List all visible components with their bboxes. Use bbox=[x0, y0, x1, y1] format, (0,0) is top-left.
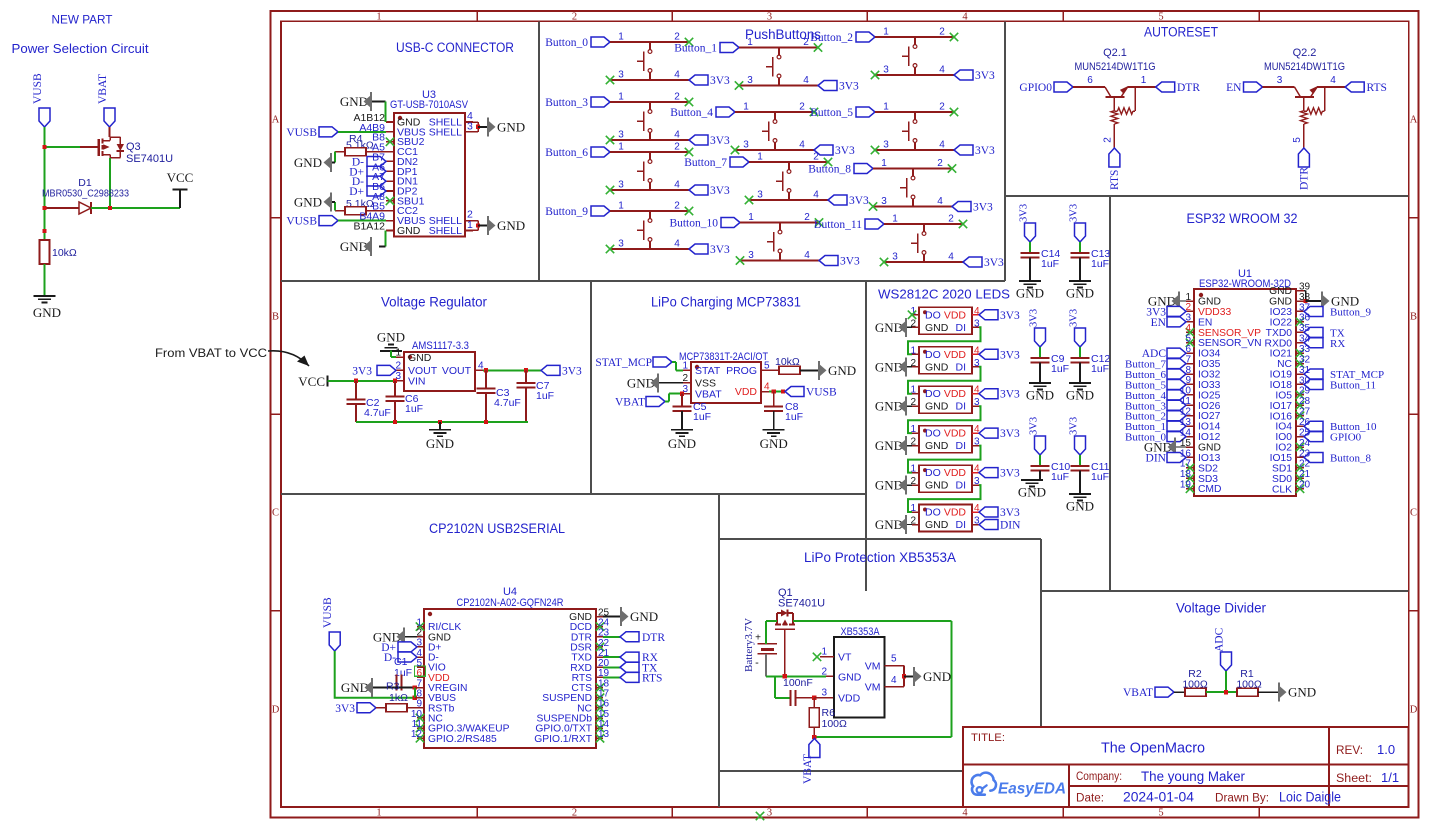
svg-text:GPIO.1/RXT: GPIO.1/RXT bbox=[534, 734, 592, 745]
svg-text:The young Maker: The young Maker bbox=[1141, 769, 1245, 784]
svg-text:1: 1 bbox=[910, 385, 916, 396]
wire RXD (U4) bbox=[603, 666, 620, 668]
svg-text:Drawn By:: Drawn By: bbox=[1215, 793, 1269, 805]
svg-text:VDD: VDD bbox=[944, 349, 967, 361]
svg-text:13: 13 bbox=[1180, 417, 1192, 428]
svg-text:1: 1 bbox=[910, 345, 916, 356]
no-connect X U4 GPIO.3 bbox=[416, 724, 424, 732]
wire 3V3 to R5 bbox=[376, 707, 386, 709]
wire 3V3 to C10 bbox=[1039, 455, 1041, 466]
ground flag (LED3) bbox=[875, 397, 912, 416]
svg-text:GPIO0: GPIO0 bbox=[1019, 82, 1052, 94]
net flag Button_8 (U1 IO15) bbox=[1304, 452, 1371, 464]
svg-text:3V3: 3V3 bbox=[839, 81, 859, 93]
wire Q3 drain down bbox=[109, 158, 111, 208]
svg-text:3V3: 3V3 bbox=[849, 195, 869, 207]
svg-text:15: 15 bbox=[1180, 438, 1192, 449]
title AUTORESET bbox=[1144, 25, 1218, 40]
no-connect X U1 IO17 bbox=[1296, 401, 1304, 409]
LED4 pin numbers bbox=[910, 424, 980, 448]
LED3 pin numbers bbox=[910, 385, 980, 409]
net flag DTR (Q2.2) bbox=[1298, 148, 1310, 190]
LED6 pin stubs bbox=[912, 512, 979, 525]
label 1uF (C1) bbox=[394, 667, 412, 679]
svg-text:NEW PART: NEW PART bbox=[52, 13, 114, 27]
no-connect X U4 GPIO.2 bbox=[416, 734, 424, 742]
svg-text:18: 18 bbox=[1180, 469, 1192, 480]
no-connect X U1 IO21 bbox=[1296, 349, 1304, 357]
title CP2102N USB2SERIAL bbox=[429, 521, 565, 536]
no-connect X U4 DSR bbox=[596, 643, 604, 651]
net flag ADC (U1 IO34) bbox=[1142, 348, 1186, 360]
net flag 3V3 (C12) bbox=[1069, 309, 1086, 347]
svg-text:3V3: 3V3 bbox=[710, 185, 730, 197]
capacitor C12 1uF bbox=[1071, 353, 1111, 383]
net flag Button_1 (U1) bbox=[1125, 421, 1186, 433]
label MUN5214DW1T1G (Q2.1) bbox=[1075, 61, 1156, 73]
svg-text:37: 37 bbox=[1299, 302, 1311, 313]
svg-text:3: 3 bbox=[757, 190, 763, 201]
svg-text:IO4: IO4 bbox=[1275, 422, 1292, 433]
svg-text:B: B bbox=[272, 312, 279, 323]
capacitor C6 1uF bbox=[386, 381, 424, 422]
push switch Button_10 bbox=[767, 223, 782, 261]
svg-text:Button_6: Button_6 bbox=[545, 147, 588, 159]
part label AMS1117-3.3 bbox=[412, 340, 469, 352]
push switch Button_9 bbox=[637, 211, 652, 249]
net flag VUSB (MCP VDD) bbox=[785, 387, 837, 399]
wire VBAT to Q3 source bbox=[109, 127, 111, 137]
svg-text:1: 1 bbox=[618, 142, 624, 153]
svg-text:VDD33: VDD33 bbox=[1198, 307, 1231, 318]
net flag GPIO0 (base Q2.1) bbox=[1019, 82, 1073, 94]
wire base (Q2.2) bbox=[1263, 75, 1295, 87]
svg-text:4: 4 bbox=[948, 252, 954, 263]
net flag 3V3 (Button_3) bbox=[689, 135, 730, 147]
LED4 pin names bbox=[925, 428, 966, 453]
wire XB VT stub bbox=[820, 656, 834, 658]
svg-text:SD3: SD3 bbox=[1198, 474, 1218, 485]
net flag 3V3 (LED5 VDD) bbox=[979, 468, 1020, 480]
net flag 3V3 (LED1 VDD) bbox=[979, 310, 1020, 322]
net flag Button_9 bbox=[545, 206, 610, 218]
svg-text:D+: D+ bbox=[349, 186, 364, 198]
svg-text:A: A bbox=[272, 115, 280, 126]
sheet border frame bbox=[271, 11, 1419, 818]
svg-text:VDD: VDD bbox=[944, 388, 967, 400]
net flag Button_6 bbox=[545, 147, 610, 159]
svg-text:VDD: VDD bbox=[838, 693, 861, 705]
svg-text:GND: GND bbox=[925, 361, 949, 373]
label Battery3.7V bbox=[743, 618, 755, 672]
LED2 pin numbers bbox=[910, 345, 980, 369]
wire Button_5 pin3-pin4 bbox=[875, 140, 954, 151]
capacitor C8 1uF bbox=[764, 392, 803, 430]
wire 3V3 to C14 bbox=[1029, 242, 1031, 253]
svg-text:1: 1 bbox=[395, 348, 401, 359]
capacitor C10 1uF bbox=[1031, 461, 1071, 483]
net flag 3V3 (Button_1) bbox=[818, 81, 859, 93]
svg-text:3: 3 bbox=[881, 196, 887, 207]
net flag DIN (LED6 DI) bbox=[979, 520, 1021, 532]
svg-text:IO35: IO35 bbox=[1198, 359, 1221, 370]
ground flag (LED5) bbox=[875, 476, 912, 495]
push switch Button_6 bbox=[637, 152, 652, 190]
resistor R1 100 bbox=[1236, 668, 1262, 696]
svg-text:1uF: 1uF bbox=[1051, 471, 1069, 483]
resistor R4 5.1k (CC1) bbox=[345, 148, 366, 156]
net label D- (U4) bbox=[384, 652, 417, 664]
wire Button_7 pin1-pin2 bbox=[749, 152, 828, 163]
svg-text:12: 12 bbox=[411, 729, 423, 740]
net flag RTS (Q2.2) bbox=[1345, 82, 1387, 94]
net flag Button_3 bbox=[545, 97, 610, 109]
capacitor C7 1uF bbox=[517, 370, 555, 422]
svg-text:4: 4 bbox=[939, 65, 945, 76]
net flag Button_1 bbox=[674, 43, 739, 55]
svg-text:23: 23 bbox=[1299, 448, 1311, 459]
ground flag (U3 top right) bbox=[488, 117, 525, 136]
svg-text:GND: GND bbox=[760, 436, 788, 451]
IC U3 GT-USB-7010ASV body bbox=[394, 113, 465, 237]
wire STAT_MCP to STAT bbox=[672, 362, 683, 370]
svg-text:GND: GND bbox=[923, 669, 951, 684]
svg-text:GND: GND bbox=[668, 436, 696, 451]
svg-text:29: 29 bbox=[1299, 386, 1311, 397]
svg-text:3V3: 3V3 bbox=[1069, 309, 1080, 327]
svg-text:Button_2: Button_2 bbox=[810, 32, 853, 44]
svg-text:4: 4 bbox=[813, 190, 819, 201]
no-connect X U1 SENSOR_VN bbox=[1186, 339, 1194, 347]
net flag Button_11 (U1 IO18) bbox=[1304, 379, 1376, 391]
push switch Button_0 bbox=[637, 42, 652, 80]
svg-text:3V3: 3V3 bbox=[1000, 310, 1020, 322]
svg-text:GND: GND bbox=[1066, 499, 1094, 514]
wire node to diode D1 bbox=[45, 207, 80, 209]
svg-text:RX: RX bbox=[1330, 338, 1345, 350]
ground flag (U4 pin2) bbox=[373, 627, 417, 646]
ground flag (LED4) bbox=[875, 436, 912, 455]
net flag Button_5 (U1) bbox=[1125, 379, 1186, 391]
svg-text:Button_8: Button_8 bbox=[1330, 452, 1371, 464]
svg-text:NC: NC bbox=[1277, 359, 1292, 370]
svg-text:VUSB: VUSB bbox=[286, 127, 317, 139]
svg-text:VDD: VDD bbox=[944, 428, 967, 440]
svg-text:RXD0: RXD0 bbox=[1265, 338, 1293, 349]
wire LED5 DI to LED6 DO chain bbox=[908, 485, 981, 512]
svg-text:2: 2 bbox=[1185, 302, 1191, 313]
svg-text:5: 5 bbox=[1185, 334, 1191, 345]
wire LED3 DI to LED4 DO chain bbox=[908, 406, 981, 433]
svg-text:1: 1 bbox=[743, 102, 749, 113]
svg-text:MUN5214DW1T1G: MUN5214DW1T1G bbox=[1264, 61, 1345, 73]
svg-text:GND: GND bbox=[294, 194, 322, 209]
svg-text:DO: DO bbox=[925, 309, 941, 321]
svg-text:VBAT: VBAT bbox=[1123, 687, 1153, 699]
svg-text:1uF: 1uF bbox=[1091, 471, 1109, 483]
push switch Button_4 bbox=[762, 112, 777, 150]
title block Drawn By: bbox=[1215, 790, 1341, 805]
net flag Button_9 (U1 IO23) bbox=[1304, 306, 1371, 318]
svg-text:VBAT: VBAT bbox=[615, 397, 645, 409]
wire VDD to VUSB bbox=[769, 389, 785, 393]
svg-text:Button_3: Button_3 bbox=[545, 97, 588, 109]
svg-text:3: 3 bbox=[892, 252, 898, 263]
svg-text:IO32: IO32 bbox=[1198, 370, 1221, 381]
no-connect X (Button_3 pin3) bbox=[606, 136, 614, 144]
wire Button_0 pin1-pin2 bbox=[610, 32, 689, 43]
svg-text:GND: GND bbox=[1198, 443, 1221, 454]
no-connect X U4 RI/CLK bbox=[416, 622, 424, 630]
wire battery plus bbox=[765, 621, 767, 644]
svg-text:IO14: IO14 bbox=[1198, 422, 1221, 433]
svg-text:GND: GND bbox=[630, 609, 658, 624]
no-connect X (Button_9 pin3) bbox=[606, 245, 614, 253]
no-connect X (LED1 DO) bbox=[908, 311, 916, 319]
svg-text:1: 1 bbox=[682, 361, 688, 372]
svg-text:2: 2 bbox=[939, 102, 945, 113]
ground flag (LED1) bbox=[875, 318, 912, 337]
svg-text:DO: DO bbox=[925, 428, 941, 440]
svg-text:VBAT: VBAT bbox=[802, 754, 814, 784]
wire Button_11 pin3-pin4 bbox=[884, 252, 963, 263]
wire Button_2 pin3-pin4 bbox=[875, 65, 954, 76]
svg-text:EasyEDA: EasyEDA bbox=[998, 781, 1066, 798]
svg-text:GT-USB-7010ASV: GT-USB-7010ASV bbox=[390, 99, 469, 111]
net flag VUSB (U3 VBUS A4B9) bbox=[286, 127, 338, 139]
no-connect X (Button_0 pin3) bbox=[606, 76, 614, 84]
svg-text:1: 1 bbox=[1185, 292, 1191, 303]
svg-text:3: 3 bbox=[618, 70, 624, 81]
LED2 pin names bbox=[925, 349, 966, 374]
svg-text:2: 2 bbox=[813, 152, 819, 163]
svg-text:Date:: Date: bbox=[1076, 793, 1104, 805]
svg-text:IO15: IO15 bbox=[1270, 453, 1293, 464]
LED LED6 WS2812C body bbox=[919, 505, 972, 532]
ground flag (LED2) bbox=[875, 357, 912, 376]
svg-text:4: 4 bbox=[804, 250, 810, 261]
svg-text:GND: GND bbox=[925, 480, 949, 492]
svg-text:1uF: 1uF bbox=[785, 411, 803, 423]
net flag 3V3 (C10) bbox=[1029, 417, 1046, 455]
title LiPo Charging MCP73831 bbox=[651, 295, 801, 310]
svg-text:1: 1 bbox=[892, 214, 898, 225]
no-connect X (Button_2 pin2) bbox=[950, 33, 958, 41]
LED1 pin names bbox=[925, 309, 966, 334]
wire base (Q2.1) bbox=[1073, 75, 1105, 87]
svg-text:Button_5: Button_5 bbox=[810, 107, 853, 119]
svg-text:3: 3 bbox=[467, 121, 473, 133]
no-connect X (Button_6 pin2) bbox=[685, 148, 693, 156]
svg-text:GND: GND bbox=[1026, 388, 1054, 403]
svg-text:VM: VM bbox=[865, 661, 881, 673]
IC MCP73831 body bbox=[691, 362, 761, 403]
svg-text:17: 17 bbox=[1180, 459, 1192, 470]
svg-text:3V3: 3V3 bbox=[975, 145, 995, 157]
net flag DTR (Q2.1) bbox=[1156, 82, 1201, 94]
transistor Q2.2 MUN5214DW1T1G bbox=[1295, 86, 1325, 124]
no-connect X (Button_0 pin2) bbox=[685, 38, 693, 46]
svg-text:SE7401U: SE7401U bbox=[778, 598, 825, 610]
label NEW PART bbox=[52, 13, 114, 27]
svg-text:3: 3 bbox=[883, 65, 889, 76]
no-connect X (Button_2 pin3) bbox=[871, 71, 879, 79]
wire U3 pin A1B12 to GND bbox=[372, 102, 386, 123]
title The OpenMacro bbox=[1101, 740, 1205, 757]
LED1 pin numbers bbox=[910, 306, 980, 330]
LED LED5 WS2812C body bbox=[919, 465, 972, 492]
wire VUSB to VBUS bbox=[335, 651, 415, 698]
net flag VBAT (protection, vertical) bbox=[802, 739, 820, 785]
svg-text:IO5: IO5 bbox=[1275, 390, 1292, 401]
svg-text:IO16: IO16 bbox=[1270, 411, 1293, 422]
resistor R5 (RSTb pullup) bbox=[386, 704, 407, 712]
part label CP2102N-A02-GQFN24R bbox=[457, 597, 564, 609]
svg-text:1: 1 bbox=[910, 424, 916, 435]
label C1 bbox=[394, 656, 408, 668]
wire R to GND (PROG) bbox=[800, 369, 818, 371]
svg-text:3V3: 3V3 bbox=[1000, 468, 1020, 480]
svg-text:22: 22 bbox=[1299, 459, 1311, 470]
svg-text:Button_0: Button_0 bbox=[545, 37, 588, 49]
net flag 3V3 (Button_8) bbox=[952, 202, 993, 214]
svg-text:-: - bbox=[755, 657, 759, 669]
wire 3V3 to C9 bbox=[1039, 347, 1041, 358]
net flag 3V3 (Button_7) bbox=[828, 195, 869, 207]
svg-text:1: 1 bbox=[883, 102, 889, 113]
svg-text:4: 4 bbox=[674, 70, 680, 81]
net flag STAT_MCP (U1 IO19) bbox=[1304, 369, 1384, 381]
svg-text:SD0: SD0 bbox=[1272, 474, 1292, 485]
svg-text:1uF: 1uF bbox=[693, 411, 711, 423]
svg-text:3: 3 bbox=[618, 180, 624, 191]
resistor 10k pulldown bbox=[40, 240, 77, 264]
svg-text:C: C bbox=[1410, 508, 1417, 519]
svg-text:B: B bbox=[1410, 312, 1417, 323]
svg-text:30: 30 bbox=[1299, 375, 1311, 386]
LED LED3 WS2812C body bbox=[919, 386, 972, 413]
net flag Button_7 bbox=[684, 157, 749, 169]
svg-text:GND: GND bbox=[828, 363, 856, 378]
svg-text:IO23: IO23 bbox=[1270, 307, 1293, 318]
svg-text:1uF: 1uF bbox=[1041, 258, 1059, 270]
svg-text:3: 3 bbox=[821, 688, 827, 699]
svg-text:GND: GND bbox=[925, 440, 949, 452]
op label U3 bbox=[422, 89, 436, 101]
svg-text:DI: DI bbox=[956, 322, 967, 334]
no-connect X (Button_9 pin2) bbox=[685, 207, 693, 215]
label 100nF bbox=[783, 677, 813, 689]
svg-text:GND: GND bbox=[1016, 286, 1044, 301]
wire emitter to RTS bbox=[1102, 124, 1114, 148]
svg-text:1: 1 bbox=[881, 158, 887, 169]
wire resistor to GND bbox=[44, 264, 46, 296]
svg-text:Battery3.7V: Battery3.7V bbox=[743, 618, 755, 672]
svg-text:100Ω: 100Ω bbox=[1236, 679, 1262, 691]
LED2 pin stubs bbox=[912, 354, 979, 367]
net label D+ (U4) bbox=[381, 642, 417, 654]
svg-text:SHELL: SHELL bbox=[429, 225, 462, 237]
svg-text:2: 2 bbox=[937, 158, 943, 169]
no-connect X U1 NC bbox=[1296, 359, 1304, 367]
svg-text:1: 1 bbox=[747, 37, 753, 48]
svg-text:IO19: IO19 bbox=[1270, 370, 1293, 381]
svg-text:2: 2 bbox=[799, 102, 805, 113]
no-connect X (Button_5 pin2) bbox=[950, 108, 958, 116]
svg-text:IO25: IO25 bbox=[1198, 390, 1221, 401]
svg-text:GND: GND bbox=[294, 155, 322, 170]
net flag DTR (U4) bbox=[620, 632, 665, 644]
wire Button_5 pin1-pin2 bbox=[875, 102, 954, 113]
svg-text:RTS: RTS bbox=[642, 672, 662, 684]
net flag Button_0 bbox=[545, 37, 610, 49]
label R3 bbox=[386, 681, 400, 693]
svg-text:3V3: 3V3 bbox=[1029, 417, 1040, 435]
svg-text:36: 36 bbox=[1299, 313, 1311, 324]
part label ESP32-WROOM-32D bbox=[1199, 278, 1291, 290]
title block TITLE: bbox=[971, 732, 1005, 744]
ground flag (MCP VSS) bbox=[627, 373, 658, 392]
label Q3 bbox=[126, 141, 141, 153]
svg-text:EN: EN bbox=[1151, 317, 1167, 329]
svg-text:12: 12 bbox=[1180, 407, 1192, 418]
wire Button_0 pin3-pin4 bbox=[610, 70, 689, 81]
LED1 pin stubs bbox=[912, 315, 979, 328]
svg-text:3V3: 3V3 bbox=[1000, 389, 1020, 401]
svg-text:IO0: IO0 bbox=[1275, 432, 1292, 443]
op label U1 bbox=[1238, 268, 1252, 280]
net flag Button_10 (U1 IO4) bbox=[1304, 421, 1377, 433]
svg-text:DI: DI bbox=[956, 480, 967, 492]
svg-text:VBAT: VBAT bbox=[695, 388, 722, 400]
wire Q1 gate to ground rail bbox=[784, 630, 786, 677]
no-connect X on SBU2 bbox=[386, 138, 394, 146]
svg-text:D: D bbox=[272, 705, 280, 716]
svg-text:DI: DI bbox=[956, 440, 967, 452]
net flag Button_2 (U1) bbox=[1125, 411, 1186, 423]
label Power Selection Circuit bbox=[12, 41, 149, 56]
svg-text:DTR: DTR bbox=[642, 632, 665, 644]
wire 3V3 to C12 bbox=[1079, 347, 1081, 358]
net flag 3V3 (Button_4) bbox=[814, 145, 855, 157]
svg-text:GND: GND bbox=[925, 519, 949, 531]
ground (regulator rail) bbox=[426, 422, 454, 451]
svg-text:SHELL: SHELL bbox=[429, 126, 462, 138]
svg-text:38: 38 bbox=[1299, 292, 1311, 303]
svg-text:CMD: CMD bbox=[1198, 484, 1221, 495]
no-connect X U1 IO2 bbox=[1296, 443, 1304, 451]
wire R5 to GND elbow bbox=[332, 202, 345, 211]
net flag RX (U1 RXD0) bbox=[1304, 338, 1345, 350]
svg-text:Button_11: Button_11 bbox=[1330, 379, 1376, 391]
svg-text:IO21: IO21 bbox=[1270, 349, 1293, 360]
U1 pin numbers bbox=[1180, 281, 1311, 490]
svg-text:GND: GND bbox=[925, 401, 949, 413]
net flag Button_3 (U1) bbox=[1125, 400, 1186, 412]
op label U4 bbox=[503, 586, 517, 598]
svg-text:TXD0: TXD0 bbox=[1266, 328, 1293, 339]
svg-text:3V3: 3V3 bbox=[1069, 204, 1080, 222]
resistor R5 5.1k (CC2) bbox=[345, 207, 366, 215]
svg-text:2: 2 bbox=[674, 32, 680, 43]
svg-text:1: 1 bbox=[748, 212, 754, 223]
capacitor C11 1uF bbox=[1071, 461, 1110, 494]
net flag RX (U4 TXD) bbox=[620, 652, 659, 664]
wire XB VM pins to GND bbox=[885, 666, 914, 687]
LED6 pin names bbox=[925, 507, 966, 532]
svg-text:4: 4 bbox=[803, 75, 809, 86]
svg-text:4.7uF: 4.7uF bbox=[364, 407, 391, 419]
